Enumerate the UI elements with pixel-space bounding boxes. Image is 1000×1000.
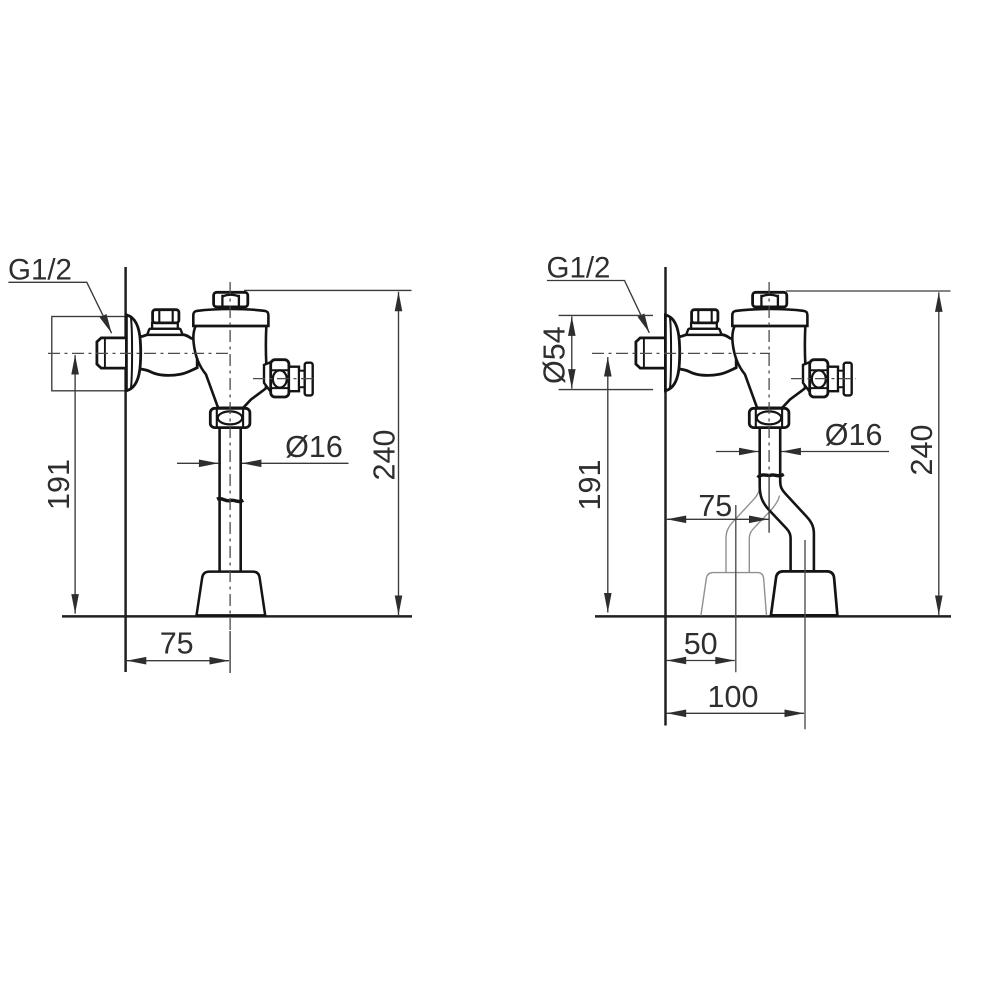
bent pipe left edge xyxy=(760,428,791,572)
G1/2 leader left xyxy=(8,282,111,333)
191 dimension line right xyxy=(607,357,609,613)
outlet centerline left xyxy=(253,378,318,380)
svg-text:191: 191 xyxy=(573,460,607,511)
240 dimension line right xyxy=(938,292,940,615)
svg-text:100: 100 xyxy=(708,680,759,714)
svg-text:191: 191 xyxy=(42,459,76,510)
wall line left view xyxy=(124,267,127,672)
down pipe right edge xyxy=(239,428,242,572)
dia 54 top extension xyxy=(559,314,653,316)
191 dimension line left xyxy=(74,355,76,614)
75 dimension line left xyxy=(127,660,229,662)
50 extension line xyxy=(735,505,737,672)
svg-text:G1/2: G1/2 xyxy=(8,254,72,287)
dia 54 dimension line xyxy=(571,316,573,388)
vertical centerline left xyxy=(229,282,231,630)
vertical centerline right xyxy=(768,282,770,475)
inlet centerline right xyxy=(592,352,770,354)
base spud right view xyxy=(771,571,838,615)
ghost pipe left edge xyxy=(726,488,760,573)
svg-text:G1/2: G1/2 xyxy=(547,252,611,285)
svg-text:75: 75 xyxy=(160,626,194,660)
75 dimension line right xyxy=(667,518,769,520)
240 dimension line left xyxy=(398,292,400,615)
ghost pipe right edge xyxy=(749,496,779,573)
down pipe left edge xyxy=(218,428,221,572)
inlet centerline left xyxy=(48,352,232,354)
center extension below base left xyxy=(229,631,231,673)
240 top extension left xyxy=(244,289,412,291)
floor line right view xyxy=(595,615,951,618)
240 top extension right xyxy=(786,290,951,292)
svg-text:240: 240 xyxy=(368,430,402,481)
svg-text:50: 50 xyxy=(684,627,718,661)
svg-text:Ø54: Ø54 xyxy=(538,326,572,384)
100 extension line xyxy=(804,540,806,729)
dia 54 bottom extension xyxy=(559,389,653,391)
50 dimension line xyxy=(667,660,735,662)
bent pipe right edge xyxy=(780,428,814,572)
pipe break mark right xyxy=(758,474,784,477)
svg-text:Ø16: Ø16 xyxy=(285,430,343,464)
floor line left view xyxy=(62,615,412,618)
dia 16 arrows right xyxy=(716,451,759,453)
base spud left view xyxy=(197,572,266,616)
diameter 16 arrows left xyxy=(177,462,218,464)
svg-text:75: 75 xyxy=(698,489,732,523)
wall line right view xyxy=(664,267,667,726)
ghost base spud xyxy=(701,573,767,616)
outlet centerline right xyxy=(791,378,856,380)
pipe break mark xyxy=(217,499,243,502)
svg-text:240: 240 xyxy=(905,425,939,476)
flush valve assembly left view xyxy=(97,292,313,427)
svg-text:Ø16: Ø16 xyxy=(825,418,883,452)
G1/2 inlet box xyxy=(52,317,126,391)
G1/2 leader right xyxy=(547,281,649,333)
flush valve assembly right view xyxy=(636,292,852,427)
100 dimension line xyxy=(667,712,804,714)
pipe center extension right xyxy=(768,476,770,533)
